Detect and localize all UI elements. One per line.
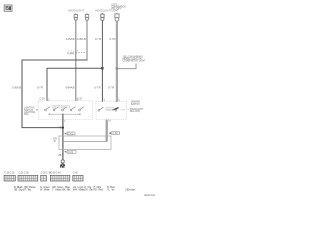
svg-text:C-01: C-01 <box>68 133 74 135</box>
svg-text:SW): SW) <box>24 113 29 116</box>
svg-text:0-84A B: 0-84A B <box>65 86 74 90</box>
svg-text:0-7 R: 0-7 R <box>108 86 114 90</box>
svg-text:0-7 R: 0-7 R <box>109 37 115 41</box>
svg-text:HIGH: HIGH <box>107 109 112 111</box>
svg-text:3 IDs blue: 3 IDs blue <box>125 189 136 192</box>
svg-text:BK : Blk: BK : Blk <box>63 189 72 192</box>
svg-text:C-39 C-40: C-39 C-40 <box>50 171 61 174</box>
svg-text:C-33 C-35: C-33 C-35 <box>19 171 30 174</box>
svg-text:GN : Grn: GN : Grn <box>84 189 94 192</box>
svg-text:2B: 2B <box>58 154 61 157</box>
svg-text:LIGHT: LIGHT <box>111 9 118 12</box>
svg-text:0-35A B: 0-35A B <box>77 37 86 41</box>
svg-text:B: B <box>5 6 9 12</box>
svg-text:Y : Yellow: Y : Yellow <box>52 189 62 192</box>
svg-text:RD : Red: RD : Red <box>94 189 104 192</box>
svg-text:0-7 R: 0-7 R <box>94 86 100 90</box>
svg-text:LOW: LOW <box>121 110 126 112</box>
svg-text:REL-OFF): REL-OFF) <box>130 110 141 113</box>
svg-text:W : White: W : White <box>40 189 50 192</box>
svg-text:HEADLIGHT: HEADLIGHT <box>68 9 84 13</box>
svg-text:C-30 C-32: C-30 C-32 <box>4 171 15 174</box>
svg-text:7B: 7B <box>58 127 61 130</box>
svg-text:C-02: C-02 <box>112 133 118 135</box>
svg-text:COMBI METER LIGHT: COMBI METER LIGHT <box>123 60 147 63</box>
svg-text:SB : Sky bl: SB : Sky bl <box>14 189 25 192</box>
svg-text:GE4W-10A: GE4W-10A <box>144 194 155 197</box>
svg-text:T : Tan: T : Tan <box>25 189 32 192</box>
svg-text:C-42: C-42 <box>73 171 79 174</box>
svg-text:0-7 R: 0-7 R <box>37 86 43 90</box>
svg-text:TAIL: TAIL <box>62 106 66 109</box>
svg-text:C-02: C-02 <box>68 152 74 154</box>
svg-text:SWITCH: SWITCH <box>131 103 140 106</box>
svg-text:C-30: C-30 <box>39 97 45 100</box>
svg-text:0-7 R: 0-7 R <box>95 37 101 41</box>
svg-text:1-25A B: 1-25A B <box>65 37 74 41</box>
svg-text:3-30A B: 3-30A B <box>12 86 21 90</box>
svg-text:HEADLIGHT: HEADLIGHT <box>95 9 111 13</box>
svg-text:YL : Yel: YL : Yel <box>107 189 115 192</box>
